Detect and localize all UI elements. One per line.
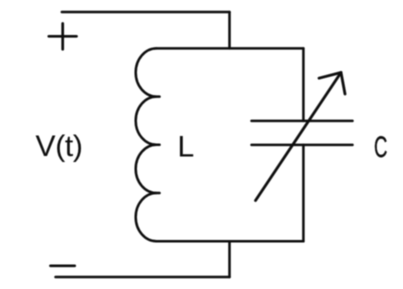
capacitor C1 bottom plate: [252, 144, 353, 147]
capacitor C1 bottom lead: [302, 145, 305, 241]
wire bottom rail: [157, 240, 304, 243]
wire bottom horizontal: [56, 276, 230, 279]
svg-text:L: L: [178, 130, 195, 163]
variable capacitor arrow shaft: [256, 73, 342, 201]
inductor cusp nub 3: [157, 192, 160, 195]
svg-text:C: C: [374, 130, 387, 164]
arrowhead barb lower: [341, 73, 345, 95]
svg-text:V(t): V(t): [36, 130, 83, 163]
wire top vertical drop: [228, 12, 231, 48]
capacitor C1 top plate: [252, 120, 353, 123]
minus terminal: [51, 264, 75, 267]
wire top horizontal: [62, 11, 230, 14]
capacitor C1 top lead: [302, 48, 305, 121]
arrowhead barb left: [319, 73, 341, 79]
inductor cusp nub 2: [157, 144, 160, 147]
inductor L1 coil: [136, 48, 157, 241]
wire bottom stub: [228, 241, 231, 277]
inductor cusp nub 1: [157, 95, 160, 98]
wire top rail: [157, 47, 304, 50]
plus terminal: [49, 24, 77, 50]
